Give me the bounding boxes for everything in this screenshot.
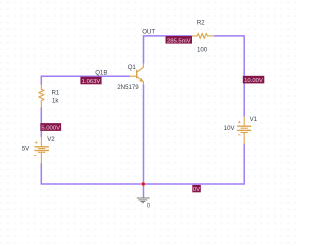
battery V1 plate long 1 [237,125,251,127]
wire: left vertical segment from corner to R1 top [40,76,42,85]
junction dot at emitter/ground/bottom rail [142,182,145,185]
wire: top rail from R2 left lead to OUT corner down to Q1 collector [144,36,192,64]
svg-text:R1: R1 [52,89,60,96]
battery V2 top lead [40,137,42,147]
wire: base wire from R1 top corner to Q1 base [41,75,130,77]
probe label 285.5mV at OUT [166,36,193,44]
svg-text:285.5mV: 285.5mV [167,38,191,44]
transistor Q1 base lead [130,75,137,77]
svg-text:V2: V2 [47,136,55,143]
battery V2 [34,137,49,164]
battery V2 bottom lead [40,153,42,164]
svg-text:100: 100 [197,47,208,54]
svg-text:Q1: Q1 [128,64,137,71]
battery V1 bottom lead [243,133,245,144]
svg-text:1.063V: 1.063V [82,79,101,85]
transistor Q1 base bar [136,70,138,79]
svg-text:10V: 10V [224,125,236,132]
svg-text:0V: 0V [193,187,200,193]
svg-text:5.000V: 5.000V [41,126,60,132]
wire: emitter wire down to junction [143,84,145,184]
wire: ground stem [143,184,145,198]
battery V1 plate short 2 [241,132,248,134]
battery V1 top lead [243,116,245,125]
svg-text:V1: V1 [250,116,258,123]
battery V2 minus sign [34,155,36,157]
battery V2 plate long 2 [35,150,49,152]
wire: left vertical wire V2 bottom to bottom rail corner [41,163,143,184]
battery V2 plate short 2 [38,151,45,153]
probe label 5.000V on left rail [40,123,61,132]
wire: bottom rail from ground junction to right rail corner [144,144,245,184]
resistor R2 [191,34,214,39]
svg-text:5V: 5V [22,145,30,152]
battery V1 minus sign [238,134,240,136]
transistor Q1 [130,63,144,84]
probe label 1.063V at Q1B [80,77,101,85]
svg-text:10.00V: 10.00V [244,78,263,84]
transistor Q1 emitter arrow [139,78,143,82]
resistor R1 [39,84,44,107]
battery V2 plate long 1 [35,146,49,148]
battery V1 plate short 1 [241,127,248,129]
probe label 10.00V on right rail [243,76,264,84]
svg-text:2N5179: 2N5179 [117,84,139,91]
wire: left vertical wire R1 bottom to V2 top [40,107,42,137]
wire: right vertical V1 top to top rail, to R2 right lead [214,36,244,117]
battery V2 plus sign [35,141,37,143]
transistor Q1 emitter pin [137,77,143,85]
svg-text:R2: R2 [197,20,205,27]
ground symbol [137,198,150,203]
transistor Q1 collector pin [137,63,143,72]
battery V1 [237,116,251,143]
svg-text:1k: 1k [52,98,59,105]
svg-text:OUT: OUT [142,29,155,36]
probe label 0V on bottom rail [192,185,201,193]
battery V1 plate long 2 [237,129,251,131]
svg-text:Q1B: Q1B [95,69,107,76]
battery V1 plus sign [238,121,240,123]
battery V2 plate short 1 [38,148,45,150]
